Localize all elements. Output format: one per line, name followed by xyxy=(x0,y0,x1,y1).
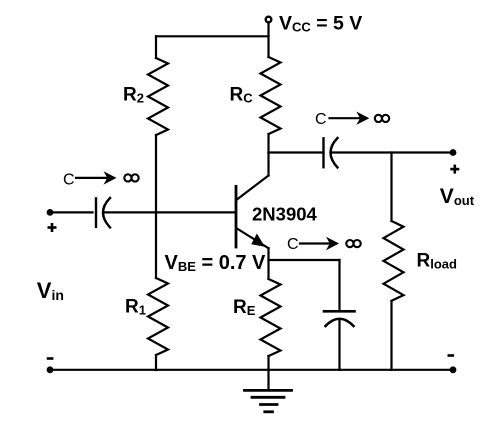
wire collector node to output capacitor xyxy=(269,151,324,153)
svg-text:C: C xyxy=(315,111,327,128)
wire Rload top lead xyxy=(390,153,392,222)
capacitor C2 output coupling xyxy=(324,138,338,168)
arrow of output C label xyxy=(330,112,370,125)
label VBE = 0.7 V xyxy=(165,252,267,274)
bottom left terminal dot xyxy=(47,366,54,373)
wire RC bottom lead to collector node xyxy=(267,134,269,153)
wire bypass branch drop xyxy=(338,260,340,310)
plus sign output xyxy=(450,165,459,174)
capacitor CE emitter bypass xyxy=(324,311,355,370)
wire R1 bottom lead xyxy=(155,355,157,370)
svg-text:2N3904: 2N3904 xyxy=(252,204,318,225)
resistor RC xyxy=(261,57,281,134)
label infinity of output capacitor xyxy=(375,115,389,122)
arrow of bypass C label xyxy=(300,237,339,250)
label Rload xyxy=(417,251,458,272)
label RC xyxy=(230,84,254,105)
label 2N3904 xyxy=(252,204,318,225)
wire input terminal to input capacitor xyxy=(50,211,93,213)
resistor Rload xyxy=(384,221,404,301)
bottom right terminal dot xyxy=(450,366,457,373)
arrow of input C label xyxy=(76,171,117,184)
label R2 xyxy=(123,85,144,106)
label C of input capacitor xyxy=(63,171,75,188)
input terminal dot xyxy=(47,209,54,216)
plus sign input xyxy=(48,223,57,232)
transistor Q1 base bar xyxy=(235,186,238,247)
svg-text:C: C xyxy=(63,171,75,188)
wire emitter node horizontal to bypass branch xyxy=(269,259,340,261)
capacitor C1 input coupling xyxy=(96,198,110,227)
label Vout xyxy=(440,185,475,208)
resistor RE xyxy=(261,279,281,356)
resistor R1 xyxy=(148,278,168,355)
wire RC top lead xyxy=(267,36,269,57)
wire divider mid (R2 bottom to R1 top, through base junction) xyxy=(155,135,157,278)
transistor Q1 collector lead xyxy=(237,153,269,200)
label VCC = 5 V xyxy=(279,12,362,34)
label R1 xyxy=(125,297,146,318)
wire top rail xyxy=(156,35,269,37)
wire Rload bottom lead xyxy=(390,301,392,370)
label infinity of input capacitor xyxy=(124,174,138,181)
wire bottom rail xyxy=(50,369,453,371)
minus sign input xyxy=(47,357,54,360)
wire R2 top lead xyxy=(155,36,157,58)
svg-text:VCC = 5 V: VCC = 5 V xyxy=(279,12,362,34)
wire output capacitor to output terminal xyxy=(332,151,454,153)
label C of bypass capacitor xyxy=(287,236,299,253)
ground xyxy=(245,370,292,412)
transistor Q1 emitter lead with arrow xyxy=(237,229,269,280)
VCC terminal xyxy=(266,17,272,37)
label RE xyxy=(233,297,256,318)
resistor R2 xyxy=(148,58,168,135)
svg-text:C: C xyxy=(287,236,299,253)
label C of output capacitor xyxy=(315,111,327,128)
output terminal dot xyxy=(450,149,457,156)
label infinity of bypass capacitor xyxy=(346,240,360,247)
minus sign output xyxy=(448,354,455,357)
wire input capacitor to base xyxy=(104,211,236,213)
label Vin xyxy=(37,278,64,303)
wire RE bottom lead xyxy=(267,356,269,370)
